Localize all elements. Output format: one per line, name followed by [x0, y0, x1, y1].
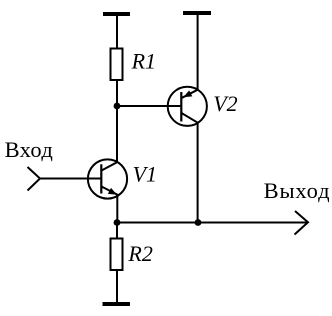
svg-text:V2: V2 — [213, 91, 237, 116]
svg-text:R1: R1 — [131, 49, 156, 74]
svg-text:V1: V1 — [133, 162, 157, 187]
svg-text:Выход: Выход — [264, 178, 331, 203]
svg-text:Вход: Вход — [5, 137, 54, 162]
svg-text:R2: R2 — [127, 241, 152, 266]
